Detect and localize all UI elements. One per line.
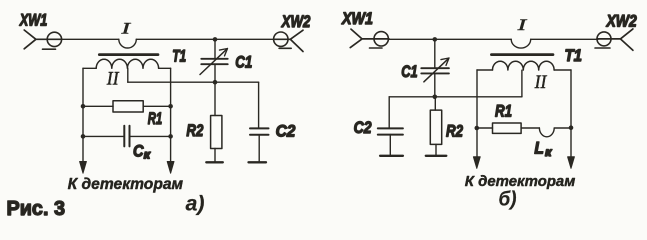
svg-text:C2: C2 <box>354 118 372 137</box>
wire: top line right segment (a) <box>136 38 274 40</box>
wire: top line left segment (a) <box>61 38 119 40</box>
arrow to detectors right (a) <box>167 162 174 174</box>
junction dot on top line (a) <box>213 37 218 42</box>
svg-text:К детекторам: К детекторам <box>68 176 184 193</box>
svg-text:C1: C1 <box>235 53 252 72</box>
junction dot right rail Ck row (a) <box>168 134 173 139</box>
svg-text:R1: R1 <box>148 109 163 128</box>
svg-text:Рис. 3: Рис. 3 <box>7 197 66 219</box>
wire: winding II left end to left rail (a) <box>83 67 96 69</box>
junction dot on top line (b) <box>433 37 438 42</box>
junction dot node (b) <box>433 95 438 100</box>
wire: top line left segment (b) <box>388 38 511 40</box>
svg-text:I: I <box>120 21 132 38</box>
wire: winding II right end to right rail (b) <box>554 69 571 71</box>
inductor Lk (b) <box>539 128 571 137</box>
capacitor C2 (a) <box>250 82 269 161</box>
wire: winding II left end to left rail (b) <box>477 69 493 71</box>
arrow to detectors left (a) <box>80 162 87 174</box>
transformer T1 winding I (b) <box>511 39 531 48</box>
resistor R2 (a) <box>211 82 222 161</box>
svg-text:C2: C2 <box>276 122 296 141</box>
resistor R2 (b) <box>430 97 441 155</box>
svg-text:C1: C1 <box>401 62 417 81</box>
svg-text:XW1: XW1 <box>19 11 47 30</box>
wire: left rail (a) <box>82 68 84 162</box>
transformer T1 core (b) <box>491 53 553 56</box>
wire: left rail (b) <box>476 70 478 157</box>
svg-text:T1: T1 <box>565 46 583 65</box>
transformer T1 winding I (a) <box>119 39 137 48</box>
svg-text:R2: R2 <box>186 121 203 140</box>
junction dot left rail R1 row (a) <box>81 104 86 109</box>
wire: right rail (b) <box>570 70 572 157</box>
svg-text:II: II <box>534 72 548 93</box>
wire: top line right segment (b) <box>531 38 598 40</box>
chassis bar under C2 (a) <box>249 161 267 163</box>
svg-text:I: I <box>516 17 528 34</box>
svg-text:XW2: XW2 <box>606 12 637 31</box>
connector XW1 (circuit a) <box>24 30 61 49</box>
svg-text:T1: T1 <box>172 47 186 66</box>
label Ck (a) <box>133 143 151 162</box>
svg-text:L: L <box>534 139 544 157</box>
capacitor C1 variable (b) <box>421 39 449 96</box>
junction dot tap node (a) <box>213 80 218 85</box>
junction dot right rail R1 row (b) <box>569 125 574 130</box>
svg-text:R1: R1 <box>495 102 512 121</box>
svg-text:R2: R2 <box>446 121 463 140</box>
resistor R1 (a) <box>83 101 171 112</box>
capacitor C2 (b) <box>378 97 403 155</box>
wire: right rail (a) <box>170 68 172 162</box>
svg-text:б): б) <box>499 189 517 211</box>
junction dot left rail R1 row (b) <box>475 126 480 131</box>
wire: tap node horizontal (a) <box>128 81 259 83</box>
junction dot right rail R1 row (a) <box>168 104 173 109</box>
connector XW2 (a) <box>274 30 304 51</box>
wire: winding II right end to right rail (a) <box>159 67 171 69</box>
capacitor Ck (a) <box>83 126 171 147</box>
connector XW2 (b) <box>595 29 633 50</box>
capacitor C1 variable (a) <box>200 39 228 82</box>
transformer T1 winding II (b) <box>493 61 555 70</box>
wire: winding tap riser (a) <box>127 68 129 82</box>
wire: tap riser (b) <box>521 70 523 97</box>
svg-text:а): а) <box>186 193 205 216</box>
wire: node horizontal (b) <box>389 96 522 98</box>
svg-text:XW1: XW1 <box>341 9 373 28</box>
connector XW1 (b) <box>350 29 389 48</box>
svg-text:К детекторам: К детекторам <box>465 173 576 190</box>
svg-text:XW2: XW2 <box>281 12 311 31</box>
arrow to detectors right (b) <box>568 157 575 169</box>
chassis bar under C2 (b) <box>380 155 403 157</box>
chassis bar under R2 (b) <box>426 155 447 157</box>
resistor R1 (b) <box>477 123 539 133</box>
chassis bar under R2 (a) <box>206 161 223 163</box>
junction dot left rail Ck row (a) <box>81 134 86 139</box>
svg-text:II: II <box>106 69 120 90</box>
transformer T1 winding II (a) <box>96 59 158 68</box>
transformer T1 core (a) <box>99 53 158 56</box>
label Lk (b) <box>534 139 552 159</box>
arrow to detectors left (b) <box>473 157 480 169</box>
